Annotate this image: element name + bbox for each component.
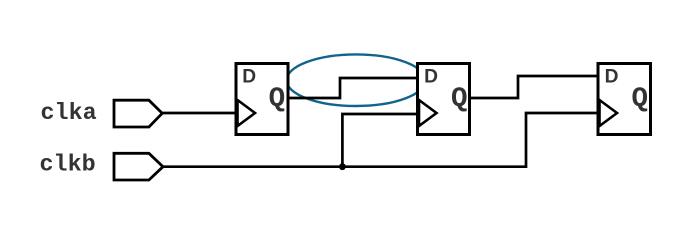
svg-text:Q: Q xyxy=(269,84,286,115)
svg-text:Q: Q xyxy=(451,84,468,115)
flip-flop U3 clock triangle xyxy=(600,100,618,126)
wire U1 Q to U2 D xyxy=(288,78,418,98)
svg-text:clka: clka xyxy=(41,101,97,127)
wire clkb bus xyxy=(163,113,598,167)
svg-text:D: D xyxy=(605,66,619,87)
flip-flop U2 clock triangle xyxy=(419,100,437,126)
input port clka xyxy=(114,100,162,127)
svg-text:D: D xyxy=(242,66,256,87)
flip-flop U2 box xyxy=(418,64,470,135)
highlight ellipse annotation xyxy=(287,54,426,106)
flip-flop U1 box xyxy=(236,64,288,135)
svg-text:clkb: clkb xyxy=(40,153,96,179)
wire junction to U2 clock xyxy=(342,114,417,167)
flip-flop U3 box xyxy=(598,64,651,135)
junction node on clkb xyxy=(339,163,346,170)
wire U2 Q to U3 D xyxy=(469,76,598,98)
input port clkb xyxy=(114,153,163,180)
svg-text:Q: Q xyxy=(632,84,649,115)
wire clka to U1 clock xyxy=(162,112,237,115)
flip-flop U1 clock triangle xyxy=(238,100,256,126)
svg-text:D: D xyxy=(424,66,438,87)
